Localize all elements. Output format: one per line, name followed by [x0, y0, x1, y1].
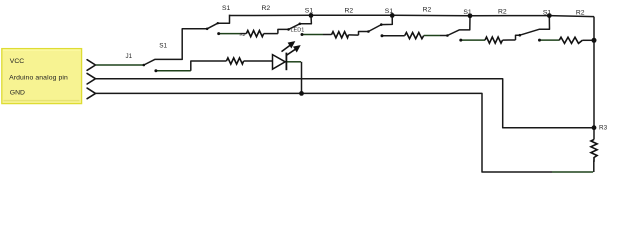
svg-text:S1: S1	[305, 7, 314, 14]
svg-text:R2: R2	[423, 7, 432, 14]
svg-text:VCC: VCC	[10, 58, 24, 65]
svg-text:S1: S1	[222, 5, 231, 12]
svg-text:R2: R2	[576, 10, 585, 17]
svg-text:LED1: LED1	[291, 27, 305, 33]
svg-text:R2: R2	[498, 9, 507, 16]
svg-text:R2: R2	[240, 32, 246, 37]
svg-text:R3: R3	[599, 125, 608, 132]
svg-text:J1: J1	[126, 53, 133, 60]
svg-text:GND: GND	[10, 89, 25, 96]
svg-text:R2: R2	[345, 7, 354, 14]
svg-text:S1: S1	[463, 9, 472, 16]
svg-text:S1: S1	[159, 42, 167, 49]
svg-text:S1: S1	[385, 8, 394, 15]
svg-text:S1: S1	[543, 10, 552, 17]
svg-text:R2: R2	[262, 5, 271, 12]
svg-text:Arduino analog pin: Arduino analog pin	[9, 74, 68, 81]
